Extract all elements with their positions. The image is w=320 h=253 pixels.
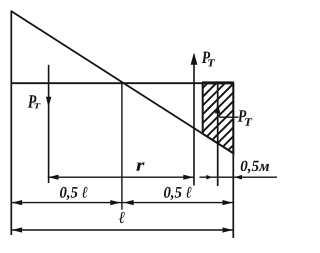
wire center extension line (121, 83, 123, 210)
force arrow P_T up (inside hatch) (215, 84, 221, 186)
label T subscript (right force) (245, 118, 253, 126)
label P (left force) (28, 95, 36, 107)
label P (top force) (202, 52, 210, 63)
label T subscript (top force) (208, 59, 215, 66)
label 0,5 l (right half) (164, 187, 171, 198)
dimension line r with 0,5 m continuation (48, 175, 277, 180)
label l (total length) (119, 212, 125, 223)
label r (136, 162, 144, 170)
label T subscript (left force) (34, 103, 40, 108)
leader line to right P_T label (219, 116, 239, 118)
dimension line l (11, 227, 233, 232)
hatched cut strip (202, 83, 234, 153)
force arrow P_T down (left) (46, 65, 51, 183)
label 0,5 l (left half) (60, 187, 67, 198)
force arrow P_T up (at r end) (191, 53, 198, 186)
wire main horizontal line (11, 82, 234, 84)
wire diagonal taper line (11, 11, 234, 154)
label 0,5 m (241, 161, 248, 172)
label P (right force) (238, 110, 247, 121)
wire left vertical edge (10, 11, 12, 235)
wire right vertical edge / extension (232, 83, 234, 238)
dimension line 0,5l + 0,5l (11, 200, 233, 205)
